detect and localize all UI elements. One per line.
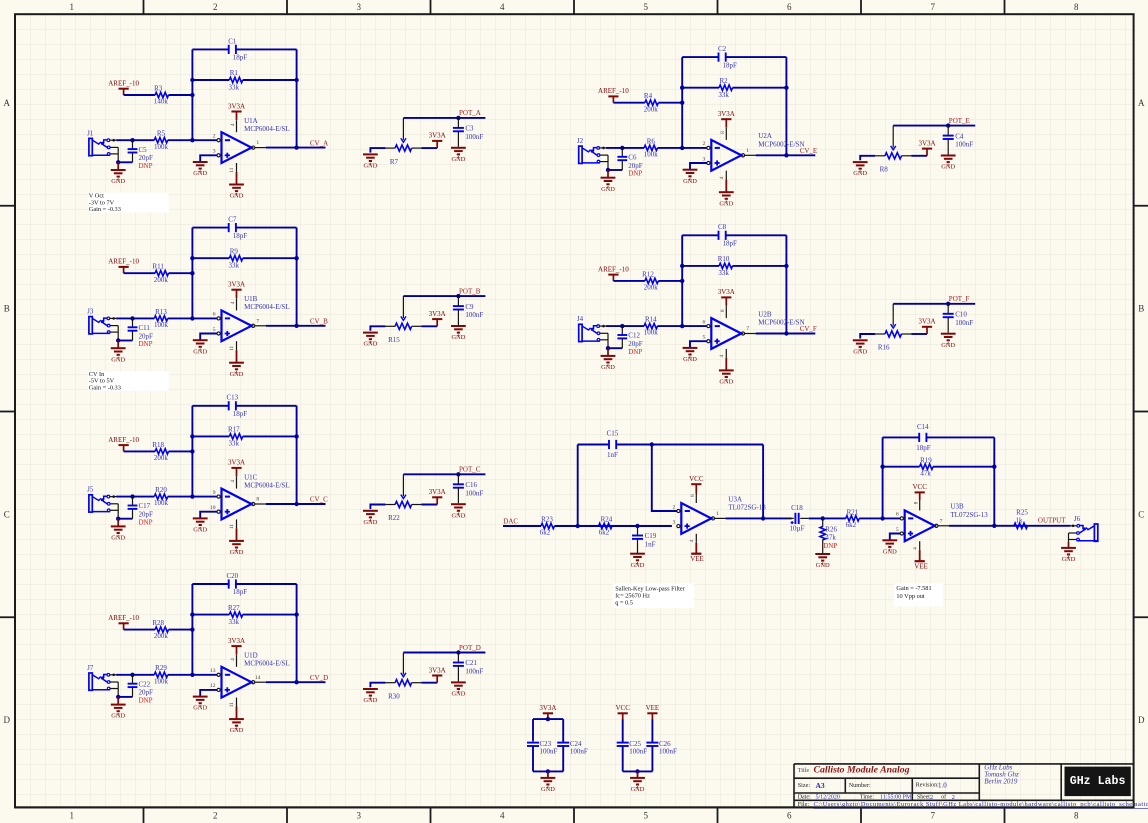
wire <box>191 228 193 319</box>
svg-text:C21: C21 <box>465 659 477 667</box>
wire <box>762 445 764 519</box>
wire <box>192 614 229 616</box>
svg-text:100nF: 100nF <box>465 133 483 141</box>
junction <box>784 264 788 268</box>
capacitor C13 <box>226 394 247 418</box>
svg-text:200k: 200k <box>154 454 169 462</box>
zone tick <box>0 205 15 207</box>
wire <box>457 296 459 306</box>
svg-text:8: 8 <box>690 494 696 497</box>
svg-text:TL072SG-13: TL072SG-13 <box>950 511 988 519</box>
svg-text:3: 3 <box>357 811 362 821</box>
svg-text:GND: GND <box>451 334 465 341</box>
wire <box>533 718 563 720</box>
svg-text:R14: R14 <box>645 316 657 324</box>
svg-text:GND: GND <box>451 691 465 698</box>
wire <box>117 519 119 527</box>
op-amp U3A <box>673 491 767 543</box>
junction <box>190 434 194 438</box>
svg-text:C2: C2 <box>718 45 727 53</box>
wire <box>168 496 217 498</box>
svg-text:GND: GND <box>941 164 955 171</box>
wire <box>169 629 193 631</box>
op-amp U2B <box>703 306 805 358</box>
wire <box>403 295 485 297</box>
wire <box>608 169 622 171</box>
svg-text:4: 4 <box>719 354 725 357</box>
svg-text:33k: 33k <box>718 269 729 277</box>
svg-text:100k: 100k <box>154 143 169 151</box>
wire <box>403 473 485 475</box>
junction <box>620 324 624 328</box>
ground <box>229 363 244 372</box>
connector J1 <box>87 129 118 162</box>
svg-text:3V3A: 3V3A <box>539 704 556 712</box>
svg-text:MCP6004-E/SL: MCP6004-E/SL <box>244 303 290 311</box>
wire <box>116 139 154 141</box>
svg-text:C19: C19 <box>645 532 657 540</box>
wire <box>621 326 623 335</box>
svg-text:GND: GND <box>230 193 244 200</box>
wire <box>860 156 875 161</box>
wire <box>124 629 156 631</box>
wire <box>682 87 719 89</box>
wire <box>118 161 132 163</box>
svg-text:100nF: 100nF <box>955 319 973 327</box>
power port AREF_-10 <box>598 87 629 103</box>
wire <box>1068 542 1070 548</box>
svg-text:J6: J6 <box>1074 515 1081 523</box>
connector J4 <box>577 315 608 348</box>
wire <box>681 57 683 148</box>
wire <box>124 450 156 452</box>
svg-text:R17: R17 <box>228 426 240 434</box>
wire <box>296 406 298 504</box>
potentiometer R22 <box>385 474 421 522</box>
svg-text:GND: GND <box>111 535 125 542</box>
wire <box>457 666 459 682</box>
junction <box>620 146 624 150</box>
op-amp U1C <box>210 473 290 529</box>
wire <box>168 139 217 141</box>
ground <box>630 778 645 787</box>
wire <box>132 140 134 149</box>
svg-text:U3A: U3A <box>728 495 742 503</box>
svg-text:A: A <box>1138 98 1145 108</box>
capacitor C11 <box>128 324 153 348</box>
wire <box>651 719 653 742</box>
junction <box>130 494 134 498</box>
svg-text:3V3A: 3V3A <box>429 310 446 318</box>
svg-text:MCP6004-E/SL: MCP6004-E/SL <box>244 660 290 668</box>
svg-text:7: 7 <box>940 518 943 524</box>
junction <box>680 279 684 283</box>
svg-text:18pF: 18pF <box>722 61 737 69</box>
svg-text:2: 2 <box>213 134 216 140</box>
wire <box>169 94 193 96</box>
svg-text:VCC: VCC <box>912 483 927 491</box>
svg-text:R8: R8 <box>880 166 889 174</box>
resistor R23 <box>540 515 555 536</box>
capacitor C16 <box>453 481 484 497</box>
ground <box>193 697 208 706</box>
wire <box>457 488 459 504</box>
ground <box>719 192 734 201</box>
junction <box>635 769 639 773</box>
svg-text:3: 3 <box>213 149 216 155</box>
svg-text:GND: GND <box>363 697 377 704</box>
svg-text:GND: GND <box>363 341 377 348</box>
svg-text:U2B: U2B <box>758 310 772 318</box>
svg-text:8: 8 <box>1074 811 1079 821</box>
wire <box>236 583 297 585</box>
capacitor C15 <box>607 429 619 459</box>
power port AREF_-10 <box>108 614 139 630</box>
wire <box>236 172 238 184</box>
junction <box>992 524 996 528</box>
power port 3V3A <box>429 666 446 682</box>
wire <box>682 265 719 267</box>
wire <box>169 450 193 452</box>
wire <box>266 325 326 327</box>
power port 3V3A <box>228 281 245 299</box>
power port AREF_-10 <box>598 265 629 281</box>
svg-text:GND: GND <box>1062 556 1076 563</box>
svg-text:POT_A: POT_A <box>459 109 481 117</box>
svg-text:B: B <box>1138 304 1144 314</box>
svg-text:1: 1 <box>746 148 749 154</box>
svg-text:10: 10 <box>210 505 216 511</box>
svg-text:1nF: 1nF <box>645 541 656 549</box>
capacitor C9 <box>453 303 484 319</box>
svg-text:3: 3 <box>703 156 706 162</box>
capacitor C17 <box>128 502 153 526</box>
ground <box>363 689 378 698</box>
wire <box>403 117 485 119</box>
zone tick <box>573 0 575 14</box>
svg-text:q = 0.5: q = 0.5 <box>615 600 633 607</box>
wire <box>421 682 437 684</box>
resistor R20 <box>154 486 169 507</box>
svg-text:J4: J4 <box>577 315 584 323</box>
wire <box>116 674 154 676</box>
wire <box>607 170 609 178</box>
svg-text:D: D <box>4 715 11 725</box>
svg-text:R7: R7 <box>390 158 399 166</box>
resistor R3 <box>154 84 169 105</box>
wire <box>266 681 326 683</box>
svg-text:11: 11 <box>229 524 235 529</box>
wire <box>690 341 707 347</box>
svg-text:20pF: 20pF <box>628 162 643 170</box>
wire <box>658 102 682 104</box>
svg-text:20pF: 20pF <box>139 511 154 519</box>
zone tick <box>860 0 862 14</box>
op-amp U1A <box>213 117 290 173</box>
svg-text:AREF_-10: AREF_-10 <box>108 436 139 444</box>
svg-text:100k: 100k <box>644 151 659 159</box>
wire <box>547 771 549 777</box>
junction <box>546 769 550 773</box>
op-amp U1D <box>210 652 290 708</box>
svg-text:R15: R15 <box>388 336 400 344</box>
junction <box>456 650 460 654</box>
junction <box>680 86 684 90</box>
wire <box>200 512 217 518</box>
text note <box>894 583 943 606</box>
wire <box>621 148 623 157</box>
wire <box>266 503 326 505</box>
svg-text:MCP6002-E/SN: MCP6002-E/SN <box>758 319 804 327</box>
svg-text:3V3A: 3V3A <box>429 666 446 674</box>
svg-text:GND: GND <box>719 379 733 386</box>
svg-text:GND: GND <box>631 786 645 793</box>
svg-text:POT_F: POT_F <box>949 295 970 303</box>
wire <box>296 49 298 147</box>
svg-text:C22: C22 <box>139 680 151 688</box>
svg-text:47k: 47k <box>825 533 836 541</box>
wire <box>658 280 682 282</box>
junction <box>190 138 194 142</box>
svg-text:12: 12 <box>210 683 216 689</box>
capacitor C7 <box>228 216 247 240</box>
ground <box>193 162 208 171</box>
power port 3V3A <box>718 288 735 306</box>
svg-text:33k: 33k <box>229 262 240 270</box>
resistor R26 <box>820 518 838 553</box>
svg-text:GND: GND <box>193 170 207 177</box>
svg-text:Gain = -7.581: Gain = -7.581 <box>896 585 931 592</box>
wire <box>637 771 639 777</box>
junction <box>606 168 610 172</box>
svg-text:C7: C7 <box>228 216 237 224</box>
svg-text:DNP: DNP <box>628 348 642 356</box>
wire <box>116 496 154 498</box>
op-amp U1B <box>213 295 290 351</box>
wire <box>883 466 920 468</box>
svg-text:18pF: 18pF <box>233 410 248 418</box>
wire <box>296 584 298 682</box>
wire <box>658 325 707 327</box>
wire <box>756 154 816 156</box>
svg-text:18pF: 18pF <box>722 240 737 248</box>
junction <box>294 256 298 260</box>
wire <box>457 653 459 663</box>
svg-text:R30: R30 <box>388 692 400 700</box>
svg-text:POT_B: POT_B <box>459 287 481 295</box>
wire <box>911 333 927 335</box>
svg-text:8: 8 <box>720 131 726 134</box>
svg-text:AREF_-10: AREF_-10 <box>108 80 139 88</box>
svg-text:4: 4 <box>689 539 695 542</box>
ground <box>229 541 244 550</box>
wire <box>733 87 787 89</box>
resistor R2 <box>718 77 732 99</box>
ground <box>882 540 897 549</box>
svg-text:C4: C4 <box>955 132 964 140</box>
junction <box>190 494 194 498</box>
capacitor C18 <box>787 504 809 533</box>
svg-text:3V3A: 3V3A <box>228 102 245 110</box>
svg-text:AREF_-10: AREF_-10 <box>108 614 139 622</box>
svg-text:Callisto Module Analog: Callisto Module Analog <box>814 764 910 775</box>
wire <box>117 341 119 349</box>
wire <box>421 147 437 149</box>
svg-text:R11: R11 <box>152 263 164 271</box>
title block <box>794 764 1134 808</box>
svg-text:7: 7 <box>746 326 749 332</box>
svg-text:DNP: DNP <box>139 697 153 705</box>
svg-text:C15: C15 <box>607 429 619 437</box>
junction <box>294 612 298 616</box>
wire <box>947 317 949 333</box>
power port AREF_-10 <box>108 80 139 96</box>
ground <box>451 148 466 157</box>
svg-text:GND: GND <box>631 562 645 569</box>
svg-text:1: 1 <box>716 511 719 517</box>
potentiometer R7 <box>385 118 421 166</box>
svg-text:7: 7 <box>931 811 936 821</box>
junction <box>680 101 684 105</box>
svg-text:AREF_-10: AREF_-10 <box>598 265 629 273</box>
wire <box>200 690 217 696</box>
junction <box>294 145 298 149</box>
wire <box>421 504 437 506</box>
svg-text:CV_C: CV_C <box>310 496 328 504</box>
svg-text:33k: 33k <box>229 618 240 626</box>
junction <box>456 294 460 298</box>
svg-text:5: 5 <box>644 811 649 821</box>
svg-text:fc= 25670 Hz: fc= 25670 Hz <box>615 593 650 600</box>
svg-text:DNP: DNP <box>139 518 153 526</box>
svg-text:VEE: VEE <box>914 562 928 570</box>
svg-text:GND: GND <box>193 705 207 712</box>
svg-text:AREF_-10: AREF_-10 <box>598 87 629 95</box>
wire <box>116 317 154 319</box>
svg-text:1: 1 <box>70 811 75 821</box>
wire <box>236 528 238 540</box>
svg-text:13: 13 <box>210 668 216 674</box>
svg-text:Gain = -0.33: Gain = -0.33 <box>89 206 121 213</box>
wire <box>132 675 134 684</box>
junction <box>294 78 298 82</box>
power port 3V3A <box>429 488 446 504</box>
connector J6 <box>1069 515 1098 542</box>
svg-text:R5: R5 <box>157 130 166 138</box>
svg-text:GND: GND <box>111 178 125 185</box>
wire <box>457 474 459 484</box>
svg-text:100k: 100k <box>644 329 659 337</box>
wire <box>503 525 541 527</box>
wire <box>243 257 297 259</box>
svg-text:Time:: Time: <box>860 795 874 801</box>
ground <box>630 554 645 563</box>
wire <box>651 746 653 771</box>
svg-text:18pF: 18pF <box>233 588 248 596</box>
wire <box>785 235 787 333</box>
svg-text:U1D: U1D <box>244 652 258 660</box>
svg-text:11:55:00 PM: 11:55:00 PM <box>880 795 912 801</box>
svg-text:J7: J7 <box>87 664 94 672</box>
potentiometer R8 <box>875 126 911 174</box>
svg-text:GND: GND <box>363 519 377 526</box>
junction <box>190 612 194 616</box>
potentiometer R30 <box>385 653 421 701</box>
svg-text:5/12/2020: 5/12/2020 <box>816 795 840 801</box>
svg-text:R16: R16 <box>878 344 890 352</box>
svg-text:GND: GND <box>230 371 244 378</box>
svg-text:R6: R6 <box>647 137 656 145</box>
capacitor C24 <box>557 740 588 756</box>
zone tick <box>430 0 432 14</box>
svg-text:J3: J3 <box>87 308 94 316</box>
svg-text:GHz Labs: GHz Labs <box>1070 775 1126 788</box>
svg-text:R20: R20 <box>155 486 167 494</box>
junction <box>880 465 884 469</box>
svg-text:CV_A: CV_A <box>310 139 328 147</box>
svg-text:Date:: Date: <box>798 795 811 801</box>
svg-text:GND: GND <box>853 348 867 355</box>
zone tick <box>717 0 719 14</box>
wire <box>613 102 645 104</box>
svg-text:100nF: 100nF <box>629 748 647 756</box>
svg-text:200k: 200k <box>154 276 169 284</box>
svg-text:R26: R26 <box>825 526 837 534</box>
resistor R12 <box>642 270 658 291</box>
svg-text:14: 14 <box>255 675 261 681</box>
wire <box>132 509 134 519</box>
svg-text:C10: C10 <box>955 311 967 319</box>
svg-text:3V3A: 3V3A <box>718 110 735 118</box>
wire <box>681 235 683 326</box>
junction <box>294 324 298 328</box>
GHz Labs logo <box>1065 767 1131 797</box>
svg-text:18pF: 18pF <box>233 232 248 240</box>
svg-text:R13: R13 <box>155 308 167 316</box>
capacitor C21 <box>453 659 484 675</box>
svg-text:1: 1 <box>256 140 259 146</box>
svg-text:4: 4 <box>230 658 236 661</box>
svg-text:100nF: 100nF <box>465 489 483 497</box>
wire <box>577 445 579 527</box>
resistor R13 <box>154 308 169 329</box>
wire <box>236 227 297 229</box>
wire <box>637 539 639 553</box>
ground <box>683 348 698 357</box>
svg-text:100k: 100k <box>154 321 169 329</box>
svg-text:D: D <box>1138 715 1145 725</box>
wire <box>236 405 297 407</box>
wire <box>606 147 644 149</box>
wire <box>562 719 564 742</box>
company info <box>984 764 1019 786</box>
wire <box>236 48 297 50</box>
svg-text:Revision:: Revision: <box>916 783 939 789</box>
svg-text:3V3A: 3V3A <box>918 139 935 147</box>
svg-text:C18: C18 <box>791 504 803 512</box>
resistor R10 <box>718 255 733 277</box>
junction <box>576 524 580 528</box>
wire <box>457 310 459 326</box>
svg-text:100nF: 100nF <box>540 748 558 756</box>
wire <box>117 697 119 705</box>
junction <box>992 465 996 469</box>
wire <box>616 444 763 446</box>
ground <box>601 356 616 365</box>
power port AREF_-10 <box>108 258 139 274</box>
svg-text:100nF: 100nF <box>465 668 483 676</box>
text note <box>88 371 169 392</box>
